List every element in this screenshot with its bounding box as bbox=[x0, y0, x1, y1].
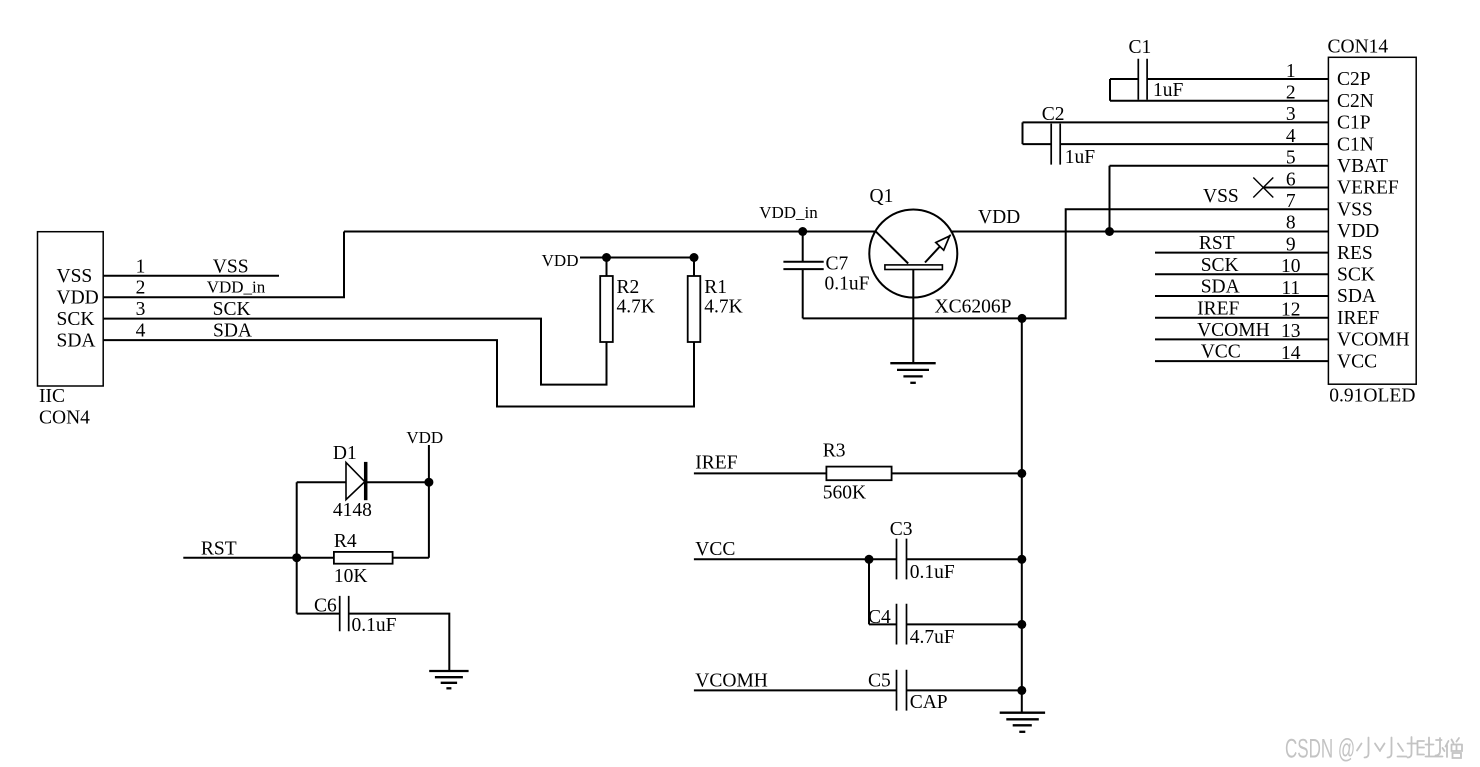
junction C3 row bbox=[1017, 555, 1026, 564]
svg-text:VDD: VDD bbox=[1337, 221, 1379, 242]
svg-text:VDD: VDD bbox=[406, 428, 443, 447]
svg-text:4.7K: 4.7K bbox=[704, 296, 742, 317]
junction VDD_in / C7 bbox=[798, 227, 807, 236]
wire RST stub bbox=[183, 557, 296, 559]
svg-text:1uF: 1uF bbox=[1153, 80, 1184, 101]
junction R2 top bbox=[602, 253, 611, 262]
svg-text:0.91OLED: 0.91OLED bbox=[1329, 385, 1415, 406]
svg-text:3: 3 bbox=[136, 299, 146, 320]
svg-text:IREF: IREF bbox=[1197, 298, 1239, 319]
svg-text:R4: R4 bbox=[334, 531, 357, 552]
wire CON4 pin3 SCK to R2 bottom bbox=[103, 319, 606, 385]
junction C4 row bbox=[1017, 620, 1026, 629]
svg-text:C5: C5 bbox=[868, 670, 891, 691]
wire VDD_in top rail bbox=[344, 231, 875, 233]
svg-text:SDA: SDA bbox=[1337, 286, 1376, 307]
svg-text:VDD_in: VDD_in bbox=[207, 278, 266, 297]
capacitor C4 bbox=[869, 559, 1022, 644]
svg-text:C4: C4 bbox=[868, 607, 891, 628]
transistor Q1 XC6206P bbox=[869, 210, 957, 364]
svg-text:VSS: VSS bbox=[213, 256, 249, 277]
svg-text:2: 2 bbox=[136, 278, 146, 299]
svg-text:560K: 560K bbox=[823, 483, 866, 504]
svg-text:0.1uF: 0.1uF bbox=[352, 615, 397, 636]
svg-text:R2: R2 bbox=[617, 277, 640, 298]
watermark CJK strokes bbox=[1357, 737, 1462, 758]
svg-text:VCC: VCC bbox=[1337, 351, 1377, 372]
wire VBAT riser and pin5 bbox=[1110, 166, 1329, 232]
svg-text:VEREF: VEREF bbox=[1337, 178, 1399, 199]
svg-text:4.7K: 4.7K bbox=[617, 296, 655, 317]
svg-text:SCK: SCK bbox=[213, 299, 251, 320]
svg-text:C2N: C2N bbox=[1337, 91, 1374, 112]
svg-text:C7: C7 bbox=[826, 253, 849, 274]
svg-text:VCOMH: VCOMH bbox=[695, 670, 768, 691]
ground (bottom of column) bbox=[1000, 713, 1045, 732]
svg-text:D1: D1 bbox=[333, 443, 357, 464]
junction VCC/C4 bbox=[865, 555, 874, 564]
diode D1 bbox=[297, 462, 429, 500]
resistor R2 bbox=[600, 258, 613, 343]
svg-text:RST: RST bbox=[201, 539, 237, 560]
svg-text:7: 7 bbox=[1286, 191, 1296, 212]
wire RST node vertical bbox=[296, 482, 298, 613]
svg-text:VCOMH: VCOMH bbox=[1337, 330, 1410, 351]
svg-text:VBAT: VBAT bbox=[1337, 156, 1388, 177]
wire VDD rail to CON14 pin8 bbox=[951, 231, 1329, 233]
svg-text:0.1uF: 0.1uF bbox=[910, 562, 955, 583]
junction ground rail bbox=[1018, 314, 1027, 323]
connector CON14 box bbox=[1328, 57, 1416, 384]
svg-text:CON4: CON4 bbox=[39, 407, 90, 428]
svg-text:C2: C2 bbox=[1042, 104, 1065, 125]
svg-text:VCOMH: VCOMH bbox=[1197, 320, 1270, 341]
svg-text:VCC: VCC bbox=[1201, 342, 1241, 363]
svg-text:RES: RES bbox=[1337, 243, 1373, 264]
svg-text:1: 1 bbox=[136, 256, 146, 277]
CON14 pin numbers bbox=[1281, 61, 1301, 364]
svg-text:0.1uF: 0.1uF bbox=[825, 274, 870, 295]
wire VDD stub to R1/R2 tops bbox=[580, 257, 694, 259]
wire ground rail to VSS pin7 bbox=[803, 209, 1329, 318]
svg-text:XC6206P: XC6206P bbox=[935, 297, 1012, 318]
wire CON4 pin1 VSS stub bbox=[103, 275, 279, 277]
svg-text:VCC: VCC bbox=[695, 539, 735, 560]
svg-text:SCK: SCK bbox=[1337, 265, 1375, 286]
resistor R4 bbox=[297, 552, 429, 564]
capacitor C2 with pin3/pin4 wires bbox=[1023, 122, 1329, 164]
svg-text:SDA: SDA bbox=[57, 330, 96, 351]
svg-text:CON14: CON14 bbox=[1328, 37, 1389, 58]
no-connect X on pin6 bbox=[1253, 178, 1273, 198]
junction C5 row bbox=[1017, 686, 1026, 695]
junction VBAT/VDD bbox=[1105, 227, 1114, 236]
svg-text:VSS: VSS bbox=[57, 266, 93, 287]
connector J1 IIC CON4 box bbox=[38, 232, 104, 386]
junction RST node bbox=[292, 553, 301, 562]
svg-text:C3: C3 bbox=[890, 519, 913, 540]
ground (under C6) bbox=[429, 671, 468, 688]
svg-text:4.7uF: 4.7uF bbox=[910, 627, 955, 648]
svg-text:VDD_in: VDD_in bbox=[759, 203, 818, 222]
wire CON14 pin6 VEREF stub bbox=[1263, 187, 1328, 189]
svg-text:Q1: Q1 bbox=[870, 186, 894, 207]
svg-text:C1N: C1N bbox=[1337, 134, 1374, 155]
wire ground column bbox=[1021, 318, 1023, 712]
svg-text:SCK: SCK bbox=[57, 309, 95, 330]
wire CON4 pin2 VDD_in to riser bbox=[103, 232, 344, 298]
svg-text:VDD: VDD bbox=[542, 251, 579, 270]
junction R1 top bbox=[690, 253, 699, 262]
resistor R1 bbox=[688, 258, 701, 343]
svg-text:C1P: C1P bbox=[1337, 113, 1371, 134]
wire CON4 pin4 SDA to R1 bottom bbox=[103, 340, 694, 406]
svg-text:VDD: VDD bbox=[57, 287, 99, 308]
svg-text:VSS: VSS bbox=[1203, 186, 1239, 207]
svg-text:C2P: C2P bbox=[1337, 69, 1371, 90]
svg-text:4148: 4148 bbox=[333, 500, 372, 521]
svg-text:10K: 10K bbox=[334, 566, 368, 587]
svg-text:RST: RST bbox=[1199, 233, 1235, 254]
resistor R3 bbox=[694, 467, 1022, 481]
junction R3 row bbox=[1017, 469, 1026, 478]
wire VDD lead down to R4 row bbox=[428, 445, 430, 558]
svg-text:CSDN @: CSDN @ bbox=[1285, 734, 1355, 764]
svg-text:CAP: CAP bbox=[910, 692, 948, 713]
svg-text:C6: C6 bbox=[314, 596, 337, 617]
svg-text:IREF: IREF bbox=[695, 452, 737, 473]
CON14 pin names bbox=[1337, 69, 1410, 372]
svg-text:1uF: 1uF bbox=[1065, 147, 1096, 168]
svg-text:VDD: VDD bbox=[978, 207, 1020, 228]
svg-text:4: 4 bbox=[136, 321, 146, 342]
junction D1 cathode / VDD bbox=[424, 478, 433, 487]
svg-text:R3: R3 bbox=[823, 441, 846, 462]
svg-text:C1: C1 bbox=[1129, 37, 1152, 58]
svg-text:VSS: VSS bbox=[1337, 199, 1373, 220]
ground (under Q1) bbox=[890, 363, 935, 383]
capacitor C7 bbox=[783, 232, 823, 319]
CON14 pins 9-14 stub wires bbox=[1155, 253, 1328, 362]
svg-text:8: 8 bbox=[1286, 213, 1296, 234]
capacitor C5 bbox=[694, 670, 1022, 711]
svg-text:R1: R1 bbox=[704, 277, 727, 298]
svg-text:SDA: SDA bbox=[1201, 277, 1240, 298]
svg-text:IIC: IIC bbox=[39, 386, 65, 407]
svg-text:SCK: SCK bbox=[1201, 255, 1239, 276]
capacitor C3 bbox=[694, 539, 1022, 580]
svg-text:SDA: SDA bbox=[213, 321, 252, 342]
capacitor C1 with pin1/pin2 wires bbox=[1110, 59, 1328, 101]
svg-text:IREF: IREF bbox=[1337, 308, 1379, 329]
capacitor C6 bbox=[297, 596, 450, 671]
svg-text:5: 5 bbox=[1286, 148, 1296, 169]
